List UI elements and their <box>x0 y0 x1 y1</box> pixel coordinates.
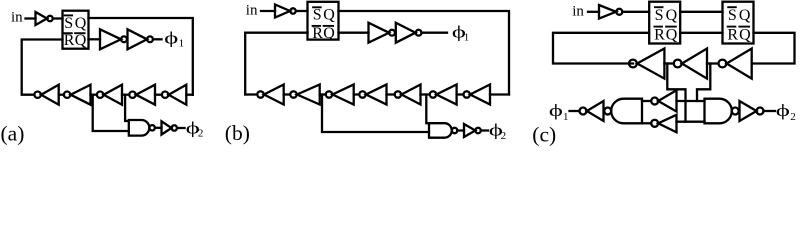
inverter B2 <box>369 23 390 43</box>
NAND gate G3 (mirrored, output on left) <box>611 99 642 124</box>
wire to phi2 <box>177 127 185 129</box>
inverter B10 (chain stage) <box>290 91 296 97</box>
wire <box>387 93 395 95</box>
inverter C10 (input) <box>599 5 616 19</box>
svg-text:Q: Q <box>323 25 335 42</box>
wire Qbar to phi1 inverters <box>89 38 101 40</box>
svg-text:Q: Q <box>323 7 335 24</box>
wire latch1 Q to latch2 S <box>680 11 722 13</box>
wire <box>284 93 291 95</box>
wire H1 gate2 upper input <box>677 100 705 102</box>
svg-text:1: 1 <box>563 111 569 123</box>
inverter C17 (phi2 output) <box>740 101 757 121</box>
SR latch U4 (S-bar Q / R-bar Q-bar) <box>723 2 754 44</box>
inverter B1 <box>275 5 290 18</box>
inverter A3 <box>128 29 148 49</box>
NAND gate G1 <box>129 120 150 136</box>
svg-text:(b): (b) <box>225 121 250 145</box>
wire <box>59 94 64 96</box>
svg-text:ϕ: ϕ <box>549 101 563 120</box>
svg-text:Q: Q <box>666 7 678 24</box>
inverter A11 (chain stage 5, leftmost) <box>41 85 59 105</box>
svg-text:2: 2 <box>501 130 507 142</box>
tap wire 1 staircase <box>667 64 685 122</box>
NAND gate G2 <box>429 123 452 138</box>
svg-text:ϕ: ϕ <box>164 28 178 47</box>
wire Qbar to inverters <box>339 32 369 34</box>
svg-text:S: S <box>64 15 73 32</box>
tap wire to NAND upper input <box>125 95 129 121</box>
NAND gate G4 <box>705 99 732 124</box>
svg-text:R: R <box>727 27 738 44</box>
svg-text:Q: Q <box>75 15 87 32</box>
inverter C16 (phi1 output) <box>587 101 604 121</box>
tap wire long to NAND lower input <box>322 95 429 133</box>
wire to gate1 top corner <box>642 100 651 102</box>
svg-text:(c): (c) <box>532 122 556 146</box>
svg-text:ϕ: ϕ <box>776 101 790 120</box>
wire <box>155 127 162 129</box>
svg-text:in: in <box>11 10 23 26</box>
wire Q feedback top <box>89 18 193 95</box>
wire to phi1 <box>422 32 448 34</box>
wire <box>354 93 360 95</box>
inverter A6 <box>162 121 172 134</box>
wire <box>457 93 464 95</box>
wire latch R input from left rail <box>245 33 307 95</box>
inverter A1 <box>36 12 48 25</box>
wire latch1 Qbar to latch2 R <box>680 32 722 34</box>
inverter A8 (chain stage 2) <box>136 85 155 105</box>
inverter C15 (lower middle) <box>658 115 676 133</box>
wire <box>664 62 673 64</box>
svg-text:R: R <box>654 27 665 44</box>
svg-text:S: S <box>313 7 322 24</box>
inverter B3 <box>396 23 416 43</box>
svg-text:Q: Q <box>75 32 87 49</box>
wire with tap <box>320 93 326 95</box>
wire H2 gate2 lower input <box>677 121 705 123</box>
wire chain output to latch R input <box>22 40 63 95</box>
wire to gate1 bottom corner <box>642 122 651 124</box>
svg-text:Q: Q <box>739 7 751 24</box>
wire chain left <box>245 93 257 95</box>
wire <box>155 94 162 96</box>
wire with tap <box>707 62 718 64</box>
tap wire to NAND lower input <box>93 95 129 131</box>
svg-text:Q: Q <box>666 27 678 44</box>
inverter B8 <box>464 124 475 137</box>
svg-text:2: 2 <box>198 128 204 140</box>
inverter A9 (chain stage 3) <box>104 85 122 105</box>
svg-text:S: S <box>728 7 737 24</box>
wire to phi2 <box>481 129 488 131</box>
wire chain right segment <box>186 94 193 96</box>
svg-text:Q: Q <box>739 27 751 44</box>
inverter C13 (chain stage, rightmost) <box>727 49 752 79</box>
inverter B11 (chain stage) <box>326 91 332 97</box>
wire to phi2 <box>764 110 776 112</box>
wire <box>622 11 649 13</box>
svg-text:1: 1 <box>179 38 185 50</box>
wire <box>457 129 464 131</box>
wire <box>53 17 63 19</box>
inverter C14 (upper middle) <box>658 90 676 111</box>
wire to phi1 <box>153 38 162 40</box>
wire <box>296 10 308 12</box>
inverter C12 (chain stage, middle) <box>682 49 707 79</box>
svg-text:S: S <box>655 7 664 24</box>
SR latch U2 (S-bar Q / R-bar Q-bar) <box>308 2 339 40</box>
inverter A2 <box>100 29 121 49</box>
wire with tap node <box>91 94 97 96</box>
svg-text:1: 1 <box>464 32 470 44</box>
wire latch2 Qbar feedback to chain <box>752 33 795 64</box>
inverter B12 (chain stage) <box>359 91 365 97</box>
wire <box>588 11 599 13</box>
wire with tap node <box>122 94 129 96</box>
SR latch U3 (S-bar Q / R-bar Q-bar) <box>649 2 680 44</box>
inverter B14 (chain stage) <box>430 91 436 97</box>
inverter A10 (chain stage 4) <box>71 85 91 105</box>
inverter A7 (chain stage 1, rightmost) <box>169 85 187 105</box>
wire in to inverter <box>26 17 36 19</box>
wire to feedback rail <box>490 93 509 95</box>
wire to phi1 <box>570 110 580 112</box>
SR latch U1 (S-bar Q / R-bar Q-bar) <box>63 11 89 49</box>
svg-text:R: R <box>312 25 323 42</box>
svg-text:in: in <box>246 3 258 19</box>
svg-text:in: in <box>572 4 584 20</box>
svg-text:R: R <box>64 32 75 49</box>
svg-text:2: 2 <box>790 111 796 123</box>
inverter B9 (chain stage, leftmost) <box>257 91 263 97</box>
inverter B13 (chain stage) <box>395 91 401 97</box>
wire Q feedback top <box>339 11 510 95</box>
inverter C11 (chain stage, leftmost) <box>637 49 664 79</box>
inverter B15 (chain stage, rightmost) <box>464 91 470 97</box>
wire <box>261 10 275 12</box>
svg-text:(a): (a) <box>1 122 25 146</box>
tap wire to NAND top corner <box>426 95 429 124</box>
wire chain to latch1 R input <box>553 33 649 64</box>
wire with tap <box>421 93 430 95</box>
tap wire 2 staircase <box>697 64 710 102</box>
